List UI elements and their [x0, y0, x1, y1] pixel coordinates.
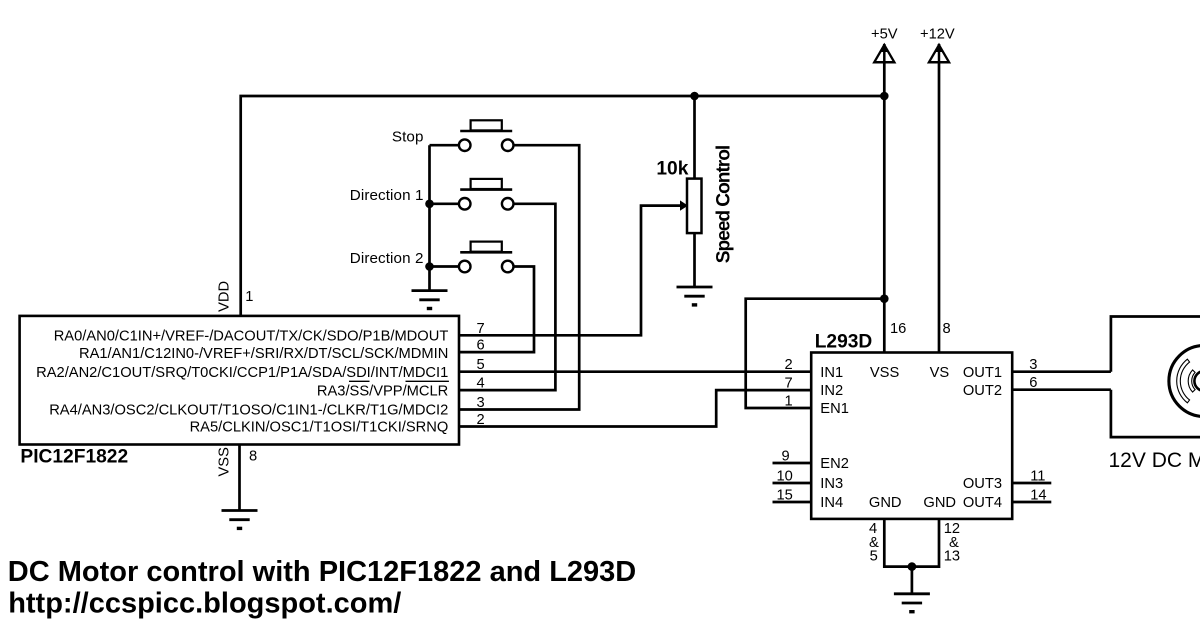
svg-text:PIC12F1822: PIC12F1822	[20, 447, 128, 468]
svg-text:http://ccspicc.blogspot.com/: http://ccspicc.blogspot.com/	[8, 588, 401, 620]
svg-text:EN2: EN2	[820, 456, 849, 472]
svg-text:DC Motor control with PIC12F18: DC Motor control with PIC12F1822 and L29…	[8, 556, 636, 588]
svg-text:3: 3	[1029, 357, 1037, 373]
svg-text:7: 7	[477, 321, 485, 337]
svg-text:VDD: VDD	[216, 281, 232, 312]
svg-text:RA3/SS/VPP/MCLR: RA3/SS/VPP/MCLR	[317, 383, 448, 399]
svg-text:15: 15	[777, 487, 793, 503]
svg-text:10: 10	[777, 468, 793, 484]
svg-text:2: 2	[785, 357, 793, 373]
svg-text:8: 8	[943, 321, 951, 337]
svg-text:14: 14	[1030, 487, 1046, 503]
svg-text:5: 5	[870, 549, 878, 565]
svg-text:RA0/AN0/C1IN+/VREF-/DACOUT/TX/: RA0/AN0/C1IN+/VREF-/DACOUT/TX/CK/SDO/P1B…	[54, 329, 449, 345]
svg-text:Direction 2: Direction 2	[350, 250, 424, 267]
svg-text:IN2: IN2	[820, 383, 843, 399]
svg-text:RA5/CLKIN/OSC1/T1OSI/T1CKI/SRN: RA5/CLKIN/OSC1/T1OSI/T1CKI/SRNQ	[190, 420, 449, 436]
svg-text:Direction 1: Direction 1	[350, 187, 424, 204]
svg-text:GND: GND	[869, 495, 902, 511]
svg-text:Speed Control: Speed Control	[714, 146, 735, 263]
svg-text:8: 8	[249, 449, 257, 465]
svg-text:6: 6	[1029, 375, 1037, 391]
svg-text:4: 4	[477, 376, 485, 392]
svg-text:1: 1	[785, 394, 793, 410]
svg-text:2: 2	[477, 412, 485, 428]
svg-text:IN3: IN3	[820, 476, 843, 492]
svg-text:RA4/AN3/OSC2/CLKOUT/T1OSO/C1IN: RA4/AN3/OSC2/CLKOUT/T1OSO/C1IN1-/CLKR/T1…	[49, 403, 448, 419]
svg-text:VS: VS	[930, 365, 950, 381]
svg-text:5: 5	[477, 357, 485, 373]
svg-text:OUT1: OUT1	[963, 365, 1002, 381]
svg-text:10k: 10k	[656, 158, 688, 179]
svg-text:11: 11	[1030, 468, 1045, 484]
svg-text:16: 16	[890, 321, 906, 337]
svg-text:L293D: L293D	[815, 331, 873, 352]
svg-text:RA1/AN1/C12IN0-/VREF+/SRI/RX/D: RA1/AN1/C12IN0-/VREF+/SRI/RX/DT/SCL/SCK/…	[79, 346, 448, 362]
svg-text:7: 7	[785, 375, 793, 391]
svg-text:+5V: +5V	[871, 27, 898, 43]
svg-text:VSS: VSS	[870, 365, 900, 381]
svg-text:1: 1	[245, 289, 253, 305]
svg-text:OUT3: OUT3	[963, 476, 1002, 492]
svg-text:VSS: VSS	[216, 447, 232, 477]
svg-text:IN1: IN1	[820, 365, 843, 381]
svg-text:13: 13	[944, 549, 960, 565]
svg-text:EN1: EN1	[820, 401, 849, 417]
svg-text:RA2/AN2/C1OUT/SRQ/T0CKI/CCP1/P: RA2/AN2/C1OUT/SRQ/T0CKI/CCP1/P1A/SDA/SDI…	[36, 365, 448, 381]
svg-text:3: 3	[477, 395, 485, 411]
svg-text:Stop: Stop	[392, 129, 424, 146]
svg-text:OUT4: OUT4	[963, 495, 1002, 511]
svg-text:6: 6	[477, 338, 485, 354]
svg-text:GND: GND	[923, 495, 956, 511]
svg-text:+12V: +12V	[920, 27, 955, 43]
svg-text:OUT2: OUT2	[963, 383, 1002, 399]
svg-text:12V DC Motor: 12V DC Motor	[1109, 449, 1200, 472]
svg-text:IN4: IN4	[820, 495, 843, 511]
svg-text:9: 9	[782, 449, 790, 465]
